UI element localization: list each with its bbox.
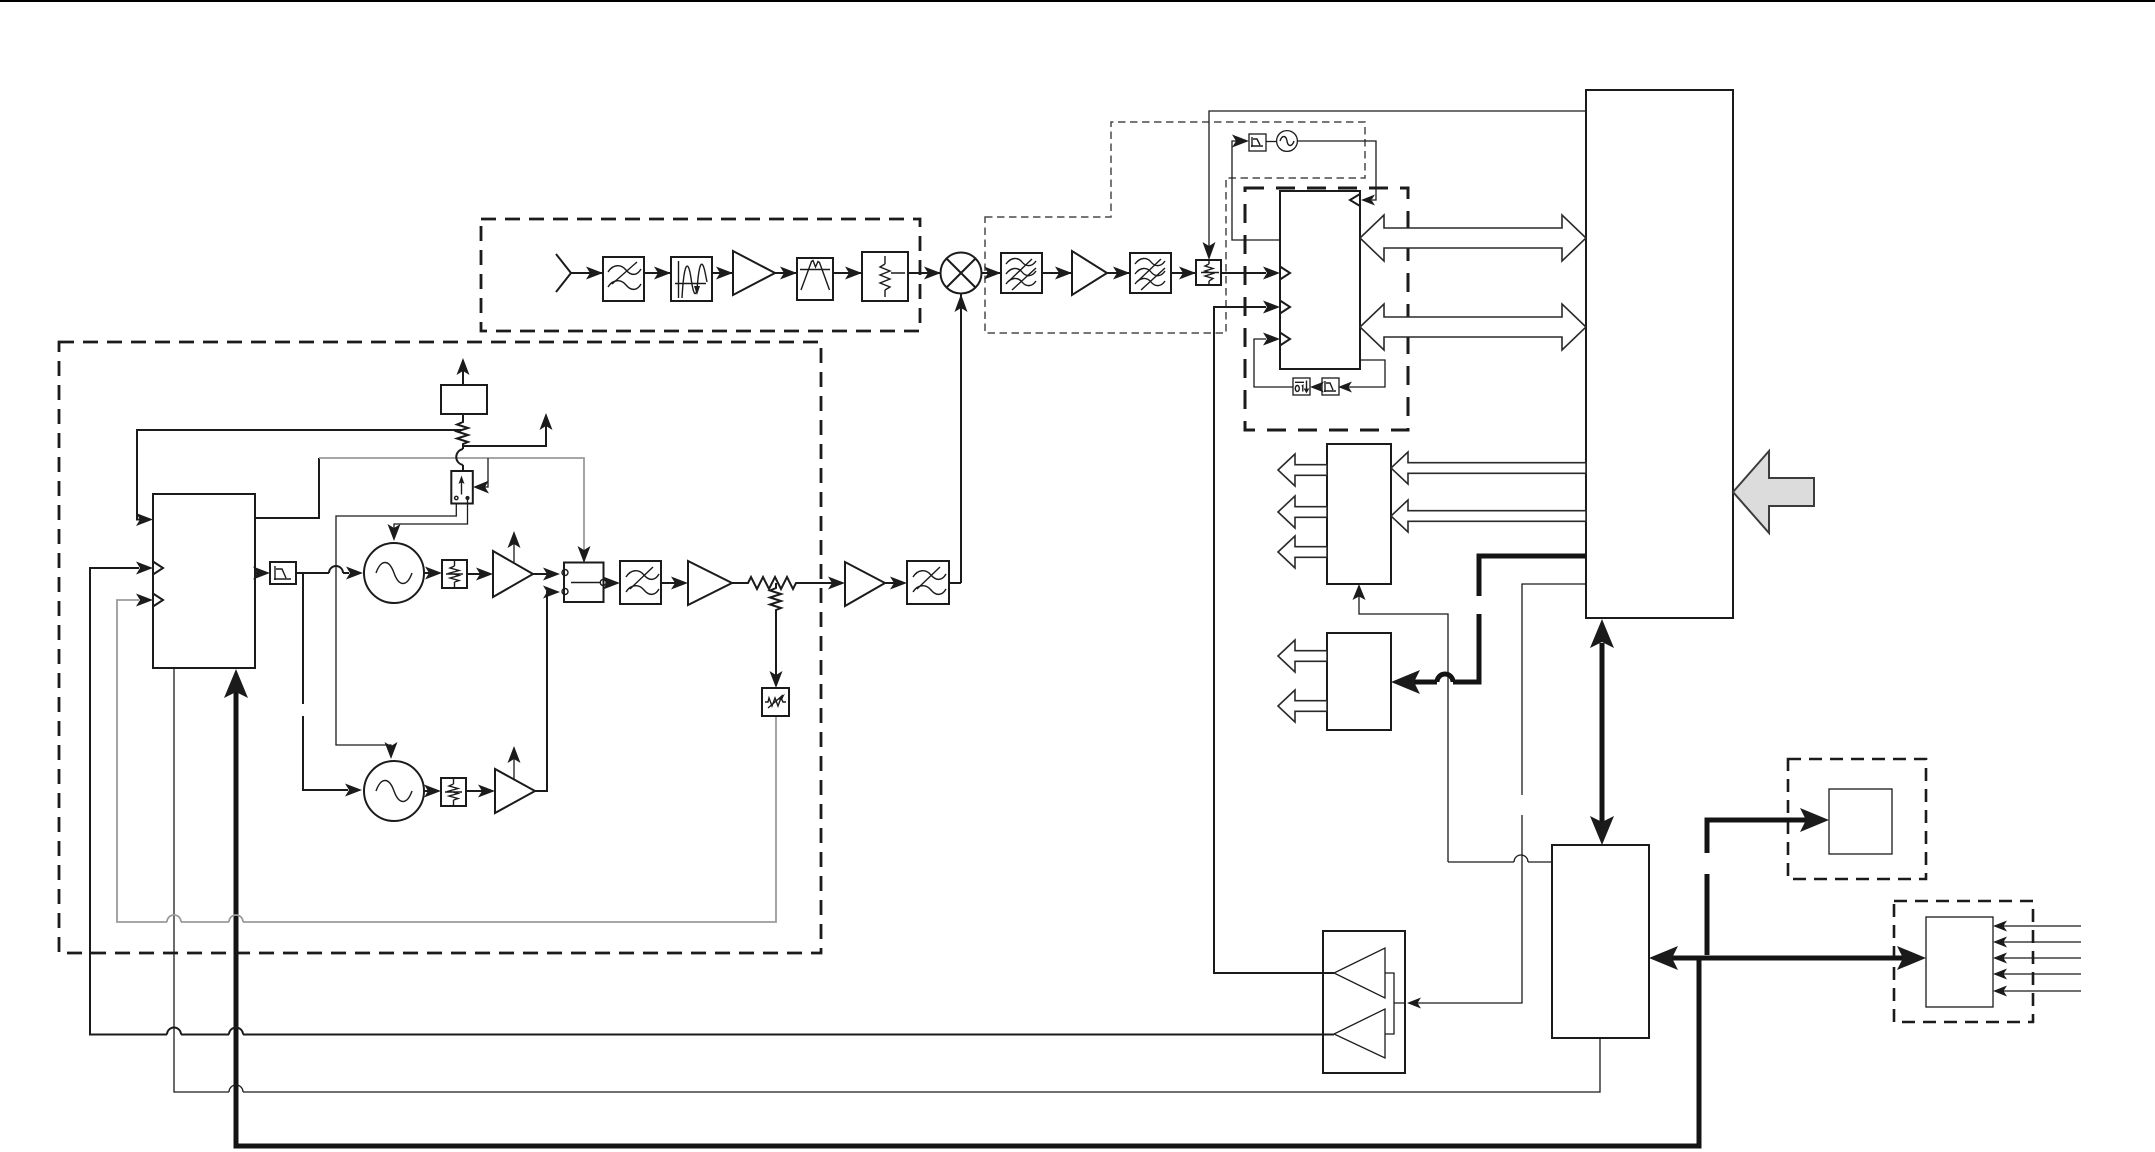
RF bandpass filter FL1: [603, 257, 644, 301]
LO wire to mixer riser: [949, 582, 961, 584]
arrow into IF filter: [780, 267, 797, 280]
wire amp1 to switch2: [533, 573, 556, 575]
wire trimmer2 to buffer amp2: [466, 790, 491, 792]
line driver block: [1323, 931, 1405, 1073]
feedback low-pass filter: [1322, 378, 1339, 395]
ADC heavy dashed enclosure: [1245, 188, 1408, 430]
switch1 output B to VCO1: [394, 498, 468, 535]
IF filter FL4: [1001, 253, 1042, 293]
arrow into RF attenuator: [845, 267, 862, 280]
control wire into audio block: [1359, 592, 1448, 862]
ADC top right pin chevron: [1350, 194, 1360, 206]
wire: [833, 272, 862, 274]
tune wire to VCO1 (hop over osc2 feed): [296, 572, 349, 574]
line driver buffer 2: [1334, 1009, 1385, 1058]
buffer amp1: [493, 551, 533, 597]
wire switch2 to LO filter: [606, 582, 616, 584]
controller block: [1552, 845, 1649, 1038]
oscillator wire loop to ADC: [1297, 141, 1376, 200]
audio output hollow arrow 2: [1278, 496, 1327, 528]
wire resistor to driver amp: [806, 582, 841, 584]
I/O port input wire 5: [1997, 990, 2081, 992]
line driver inner port rect: [1385, 973, 1405, 1034]
PLL switch-control output wire: [255, 458, 319, 518]
audio output hollow arrow 3: [1278, 536, 1327, 568]
audio input hollow arrow 1 from baseband: [1391, 452, 1586, 484]
wire: [644, 272, 671, 274]
thick bus riser arrow into synthesizer block: [224, 669, 248, 698]
buffer amp2 supply arrow: [513, 752, 515, 780]
LO filter FL6: [620, 561, 661, 604]
tune wire branch to VCO2 (with gap): [303, 573, 348, 790]
baseband processor block: [1586, 90, 1733, 618]
reference branch arrow up right: [463, 419, 546, 446]
SAW filter FL2: [671, 257, 712, 301]
switch control gray bus: [319, 458, 584, 556]
PLL input pin chevron 2: [153, 562, 163, 575]
audio output hollow arrow 1: [1278, 454, 1327, 486]
crystal oscillator: [1277, 131, 1298, 152]
LNA amplifier: [733, 251, 775, 295]
host block inner square: [1829, 789, 1892, 854]
LO series resistor: [732, 577, 806, 589]
thick bus arrow into controller: [1672, 956, 1699, 961]
synthesizer PLL block: [153, 494, 255, 668]
PLL input 2 wire from line driver buffer 2: [90, 568, 1334, 1035]
arrow into mixer: [924, 267, 941, 280]
synthesizer section dashed enclosure: [59, 342, 821, 953]
wire controller to audio block (hop over host wire): [1448, 861, 1552, 863]
ADC block: [1280, 191, 1360, 369]
clock return wire buffer1 to ADC input 2: [1214, 307, 1334, 973]
external interface gray arrow: [1733, 451, 1814, 533]
thick control bus bottom: [236, 692, 1699, 1146]
I/O port input wire 2: [1997, 941, 2081, 943]
wire VCO1 to trimmer: [424, 572, 438, 574]
IF amplifier: [1072, 251, 1107, 295]
control bus thick wire to keypad block: [1414, 556, 1586, 682]
wire VCO2 to trimmer2: [424, 790, 437, 792]
antenna input: [556, 254, 603, 292]
TCXO output arrow up: [462, 364, 464, 385]
feedback wire to ADC input 3: [1254, 339, 1293, 387]
sigma-delta DAC box: [1293, 378, 1310, 395]
PLL input pin chevron 3: [153, 594, 163, 607]
switch2 LO selector: [562, 563, 606, 603]
wire amp2 up to switch2: [535, 592, 556, 791]
arrow into SAW filter: [654, 267, 671, 280]
I/O port input wire 4: [1997, 973, 2081, 975]
wire filter to LO amp: [661, 582, 684, 584]
tap attenuator: [762, 688, 789, 716]
LO bandpass filter FL7: [907, 561, 949, 604]
IF variable attenuator: [1196, 260, 1221, 285]
VCO2 trimmer: [441, 778, 466, 806]
loop filter: [270, 562, 296, 584]
wire mixer to IF filter: [982, 272, 1002, 274]
buffer amp1 supply arrow: [513, 537, 515, 562]
top border bar: [0, 0, 2155, 2]
wire: [775, 272, 797, 274]
clock switch1: [451, 471, 473, 504]
audio interface block: [1327, 444, 1391, 584]
LO amplifier: [688, 561, 732, 605]
ADC clock input wire from crystal oscillator: [1232, 141, 1280, 240]
IF filter FL5: [1130, 253, 1171, 293]
wire to mixer: [908, 272, 941, 274]
data bus wide arrow 2: [1360, 304, 1586, 350]
host bus wire from baseband: [1411, 584, 1586, 1003]
VCO2: [364, 761, 424, 821]
LO shunt resistor branch: [770, 583, 781, 682]
keypad block: [1327, 633, 1391, 730]
buffer amp2: [495, 769, 535, 813]
wire: [1042, 272, 1072, 274]
I/O port input wire 3: [1997, 957, 2081, 959]
thick bus to I/O port block: [1699, 956, 1906, 961]
wire arrow into RF bandpass filter: [586, 267, 603, 280]
wire: [1314, 386, 1322, 388]
keypad hollow arrow 1: [1278, 640, 1327, 672]
VCO1 trimmer: [442, 560, 467, 588]
keypad hollow arrow 2: [1278, 690, 1327, 722]
wire: [712, 272, 733, 274]
bandpass filter FL3: [797, 258, 833, 300]
bidirectional thick arrow baseband to controller: [1600, 643, 1605, 822]
reference wire down to switch1 (hop over gray bus): [462, 446, 464, 471]
AGC control wire from baseband block: [1209, 111, 1586, 246]
ADC input pin chevron 1: [1280, 267, 1290, 280]
I/O port inner block: [1926, 917, 1993, 1007]
data bus wide arrow 1: [1360, 215, 1586, 261]
wire trimmer to buffer amp1: [467, 573, 489, 575]
arrow into LNA: [716, 267, 733, 280]
wire: [1171, 272, 1196, 274]
host interface dashed enclosure (upper right): [1788, 759, 1926, 879]
wire attenuator to ADC: [1221, 272, 1266, 274]
LO driver amplifier: [845, 562, 885, 606]
TCXO series resistor: [457, 414, 468, 446]
RF front-end dashed enclosure: [481, 219, 920, 331]
audio input hollow arrow 2 from baseband: [1391, 500, 1586, 532]
wire driver to LO bandpass: [885, 582, 903, 584]
I/O port dashed enclosure (lower right): [1894, 901, 2033, 1022]
ADC input pin chevron 3: [1280, 333, 1290, 346]
ADC input pin chevron 2: [1280, 301, 1290, 314]
thick bus riser to host block (dashed gap): [1707, 820, 1806, 955]
switch1 control branch: [479, 458, 488, 487]
TCXO box: [441, 385, 487, 414]
reference low-pass filter: [1249, 134, 1266, 151]
ADC feedback wire right side: [1342, 360, 1385, 387]
PLL input 1 wire from reference node: [137, 430, 461, 520]
PLL tune output wire: [255, 572, 266, 574]
IF/oscillator light dashed enclosure: [985, 122, 1365, 333]
wire: [1107, 272, 1130, 274]
I/O port input wire 1: [1997, 925, 2081, 927]
wire filter to crystal oscillator: [1266, 141, 1277, 143]
RF step attenuator: [862, 252, 908, 301]
mixer: [941, 253, 982, 294]
PLL input 3 gray wire from attenuator tap: [117, 600, 776, 922]
LO wire into mixer from below: [960, 294, 962, 583]
switch1 output A to VCO2: [336, 504, 456, 754]
VCO1: [364, 543, 424, 603]
controller reference wire to synthesizer (hop at thick riser): [174, 668, 1600, 1092]
line driver buffer 1: [1334, 948, 1385, 998]
